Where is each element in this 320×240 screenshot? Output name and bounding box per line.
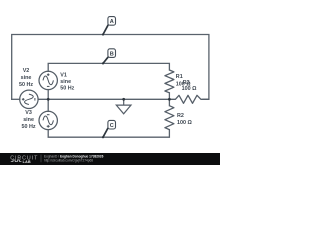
svg-text:LAB: LAB (23, 160, 31, 164)
svg-text:sine: sine (60, 79, 71, 85)
svg-text:http://circuitlab.com/c/gvjh72: http://circuitlab.com/c/gvjh7274p68 (44, 158, 93, 162)
svg-text:V3: V3 (25, 110, 32, 116)
svg-text:V2: V2 (23, 68, 30, 74)
svg-text:B: B (110, 51, 114, 57)
svg-text:100 Ω: 100 Ω (182, 86, 197, 92)
svg-text:R1: R1 (176, 74, 183, 80)
svg-text:50 Hz: 50 Hz (19, 82, 33, 88)
svg-text:50 Hz: 50 Hz (60, 86, 74, 92)
svg-text:100 Ω: 100 Ω (177, 120, 192, 126)
svg-text:V1: V1 (60, 72, 67, 78)
svg-text:R2: R2 (177, 113, 184, 119)
svg-text:C: C (110, 123, 114, 129)
svg-text:50 Hz: 50 Hz (22, 124, 36, 130)
svg-text:sine: sine (21, 75, 32, 81)
svg-text:sine: sine (23, 117, 34, 123)
svg-text:A: A (110, 19, 114, 25)
